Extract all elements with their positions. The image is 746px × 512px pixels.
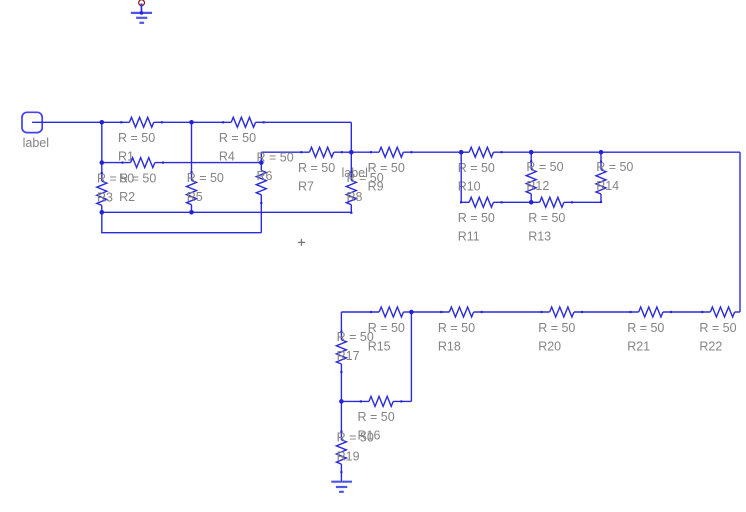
resistor R10 [461, 147, 531, 157]
wire R16 corner up to chain node I [410, 312, 412, 401]
R22 labels [699, 321, 736, 354]
node D junction [349, 150, 354, 155]
resistor R18 [411, 307, 520, 317]
wire ladder top G to right edge [601, 151, 740, 153]
node C row2 junction [259, 160, 264, 165]
resistor R13 [531, 197, 601, 207]
svg-text:R = 50: R = 50 [298, 161, 335, 175]
svg-text:R2: R2 [119, 190, 135, 204]
resistor R12 [526, 152, 536, 202]
ground GND1 (floating, unconnected pin) [131, 0, 152, 23]
wire bottom rail left cluster [102, 211, 351, 213]
resistor R4 [192, 117, 352, 127]
svg-text:R13: R13 [528, 230, 551, 244]
wire ladder top F to G [531, 151, 601, 153]
resistor R1 [102, 117, 192, 127]
R15 labels [368, 321, 405, 354]
R16 labels [358, 410, 395, 443]
R2 labels [119, 171, 156, 204]
wire U detour from R6 bottom to node A bottom [102, 212, 261, 232]
resistor R15 [341, 307, 411, 317]
label pin P1 [22, 112, 49, 150]
resistor R17 [336, 312, 346, 401]
resistor terminal pin ticks [102, 122, 703, 473]
svg-text:R = 50: R = 50 [538, 321, 575, 335]
svg-text:R19: R19 [337, 449, 360, 463]
R20 labels [538, 321, 575, 354]
wire node E down [460, 152, 462, 202]
svg-text:R12: R12 [526, 179, 549, 193]
resistor R16 [341, 396, 411, 406]
R8 labels [347, 171, 384, 204]
resistor R19 [336, 401, 346, 481]
R19 labels [337, 430, 374, 463]
net label text at node D [342, 166, 368, 180]
node F bottom junction [529, 200, 534, 205]
svg-text:R = 50: R = 50 [458, 161, 495, 175]
svg-text:R = 50: R = 50 [219, 131, 256, 145]
node G top junction [599, 150, 604, 155]
R7 labels [298, 161, 335, 194]
svg-text:R14: R14 [596, 179, 619, 193]
R13 labels [528, 211, 565, 244]
node B row1 junction [189, 120, 194, 125]
svg-text:R = 50: R = 50 [627, 321, 664, 335]
node F top junction [529, 150, 534, 155]
resistor R20 [520, 307, 610, 317]
svg-text:R = 50: R = 50 [118, 131, 155, 145]
R17 labels [337, 330, 374, 363]
resistor R11 [461, 197, 531, 207]
svg-text:R17: R17 [337, 349, 360, 363]
svg-text:R7: R7 [298, 180, 314, 194]
svg-text:R11: R11 [458, 230, 480, 244]
R5 labels [187, 171, 224, 204]
R4 labels [219, 131, 256, 164]
resistor R9 [351, 147, 461, 157]
resistor R3 [97, 163, 107, 213]
svg-text:R4: R4 [219, 150, 235, 164]
node I junction [409, 310, 414, 315]
R9 labels [368, 161, 405, 194]
resistor R22 [690, 307, 740, 317]
R1 labels [118, 131, 155, 164]
resistor R14 [596, 152, 606, 202]
node A row1 junction [100, 120, 105, 125]
svg-text:R8: R8 [347, 190, 363, 204]
R6 labels [257, 150, 294, 183]
svg-text:R21: R21 [627, 339, 650, 353]
svg-text:R18: R18 [438, 339, 461, 353]
svg-text:R = 50: R = 50 [438, 321, 475, 335]
wire jog node C up to R7 row [260, 152, 262, 162]
node J junction [339, 399, 344, 404]
resistor R8 [346, 152, 356, 212]
svg-text:R3: R3 [97, 191, 113, 205]
ground GND2 [331, 482, 352, 492]
wire row1 corner down to node D [350, 122, 352, 152]
svg-text:R = 50: R = 50 [528, 211, 565, 225]
R12 labels [526, 160, 563, 193]
wire node A down [101, 122, 103, 162]
svg-text:R22: R22 [699, 339, 722, 353]
R10 labels [458, 161, 495, 194]
resistor R21 [610, 307, 690, 317]
resistor R2 [102, 158, 261, 168]
svg-text:label: label [23, 136, 49, 150]
svg-text:R = 50: R = 50 [699, 321, 736, 335]
svg-text:R20: R20 [538, 339, 561, 353]
svg-text:R5: R5 [187, 190, 203, 204]
R18 labels [438, 321, 475, 354]
node A bottom junction [100, 210, 105, 215]
wire right edge down [739, 152, 741, 312]
plus polarity marker [298, 239, 305, 246]
R21 labels [627, 321, 664, 354]
node B bottom junction [189, 210, 194, 215]
wire label P1 to node A [32, 121, 102, 123]
R14 labels [596, 160, 633, 193]
resistor R6 [256, 163, 266, 233]
svg-text:R = 50: R = 50 [458, 211, 495, 225]
node A row2 junction [100, 160, 105, 165]
resistor R5 [187, 122, 197, 212]
node E junction [459, 150, 464, 155]
svg-text:R = 50: R = 50 [358, 410, 395, 424]
R11 labels [458, 211, 495, 244]
svg-text:R6: R6 [257, 169, 273, 183]
resistor R7 [261, 147, 351, 157]
R3 labels [97, 172, 134, 205]
